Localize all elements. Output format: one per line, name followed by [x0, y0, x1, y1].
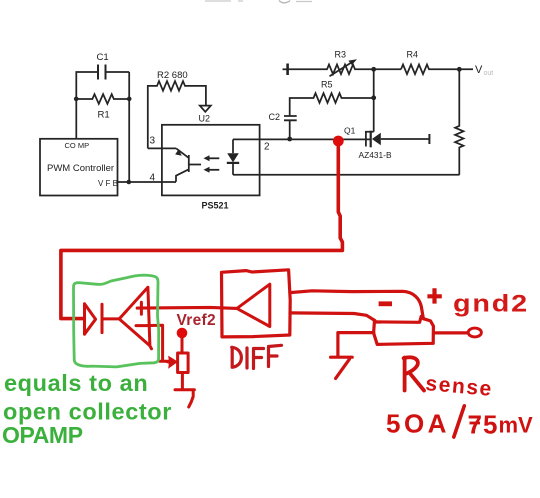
label slash of 50A/75mV: [454, 406, 465, 437]
wire Vref2 to resistor: [181, 338, 184, 353]
opto-coupler PS521 box: [162, 125, 260, 196]
wire LED cathode bottom row: [233, 174, 460, 176]
wire pin2 row: [233, 138, 370, 140]
resistor R3 potentiometer: [289, 65, 401, 75]
ground symbol below resistor: [175, 390, 194, 407]
svg-text:R5: R5: [321, 80, 333, 90]
handwritten R of Rsense: [404, 357, 424, 390]
terminal ring gnd2: [468, 328, 481, 337]
opamp minus input mark and wire to resistor: [136, 325, 169, 361]
node junction right R1: [127, 97, 132, 102]
svg-text:R4: R4: [407, 50, 419, 60]
wire left vertical COMP: [75, 99, 77, 139]
svg-text:4: 4: [150, 173, 156, 184]
wire input terminal stub: [283, 68, 287, 70]
svg-text:PS521: PS521: [202, 201, 229, 211]
svg-text:Vref2: Vref2: [177, 312, 216, 329]
node junction pin4: [127, 180, 132, 185]
svg-text:R1: R1: [98, 109, 110, 120]
svg-text:out: out: [484, 70, 494, 77]
resistor below Vref2: [178, 353, 189, 373]
label DIFF: [232, 345, 282, 368]
svg-text:R2 680: R2 680: [157, 70, 188, 81]
ground U2: [200, 106, 211, 112]
DIFF amplifier box: [222, 270, 291, 337]
wire Rsense minus side to ground: [338, 333, 374, 356]
wire resistor to ground: [181, 373, 184, 390]
resistor R2 680: [148, 81, 206, 148]
wire DIFF output bottom to Rsense minus: [290, 313, 375, 321]
node junction C2: [287, 137, 292, 142]
crossbar of handwritten 7: [470, 422, 481, 425]
node junction R3/R4: [371, 67, 376, 72]
PWM Controller box U1: [40, 139, 118, 196]
wire pin4 row: [118, 181, 177, 183]
svg-text:gnd2: gnd2: [453, 290, 529, 317]
green highlight box around opamp: [74, 275, 159, 367]
red text labels: [177, 290, 534, 440]
DIFF triangle: [237, 284, 270, 326]
svg-text:equals to an: equals to an: [4, 370, 148, 396]
svg-text:AZ431-B: AZ431-B: [359, 150, 392, 160]
svg-text:C2: C2: [269, 112, 281, 122]
svg-text:5OA: 5OA: [386, 409, 450, 439]
label minus probe: [379, 301, 392, 306]
svg-text:U2: U2: [199, 114, 211, 124]
node junction left R1: [74, 97, 79, 102]
node junction Vout: [457, 67, 462, 72]
resistor R1: [76, 94, 129, 104]
cropped word fragment top: [279, 1, 290, 3]
shunt resistor Rsense body: [374, 316, 434, 344]
R3 wiper arrow: [330, 63, 352, 76]
node Q1 red dot: [333, 136, 344, 147]
capacitor C2: [284, 116, 297, 120]
diode D open-collector output: [85, 304, 96, 334]
opamp plus input mark: [140, 302, 143, 314]
node junction R5: [371, 95, 376, 100]
wire vertical ref divider: [373, 69, 375, 132]
capacitor C1: [98, 65, 106, 80]
phototransistor Q inside PS521: [176, 148, 201, 181]
wire right vertical to pin4: [128, 99, 130, 182]
svg-text:75: 75: [468, 410, 499, 440]
wire pin3 row: [148, 147, 176, 149]
svg-text:Q1: Q1: [344, 126, 356, 136]
light arrow 1: [208, 157, 219, 159]
shunt regulator AZ431-B: [366, 132, 374, 147]
svg-text:OPAMP: OPAMP: [2, 422, 83, 448]
svg-text:V F B: V F B: [98, 179, 118, 188]
wire opamp plus to DIFF apex: [137, 307, 237, 308]
ground symbol gnd2 side: [331, 357, 353, 378]
svg-text:V: V: [475, 64, 483, 76]
wire Rsense to terminal: [434, 331, 467, 334]
svg-text:PWM Controller: PWM Controller: [47, 163, 114, 174]
wire C1 top loop: [76, 72, 129, 99]
resistor R5: [290, 93, 374, 115]
svg-text:mV: mV: [499, 413, 534, 438]
light arrow 2: [208, 169, 219, 171]
LED diode inside PS521: [232, 139, 234, 153]
label plus probe: [427, 288, 441, 303]
labels black: [47, 50, 493, 211]
resistor R4: [401, 65, 473, 75]
svg-text:C1: C1: [97, 52, 109, 63]
svg-text:open collector: open collector: [3, 398, 172, 424]
wire diode to opamp apex: [102, 317, 119, 320]
svg-text:CO MP: CO MP: [65, 141, 90, 150]
cropped top text remnants: [205, 0, 312, 3]
wire red from Q1 down-left-down to diode: [61, 143, 343, 319]
svg-text:R3: R3: [335, 50, 347, 60]
svg-text:2: 2: [264, 142, 270, 153]
svg-text:sense: sense: [425, 372, 494, 401]
transistor collector arrow: [175, 149, 182, 155]
node Vref2 dot: [177, 328, 188, 339]
svg-text:3: 3: [150, 136, 156, 147]
op-amp U open-collector: [119, 287, 151, 349]
label equals to an open collector OPAMP: [2, 370, 172, 448]
resistor load right: [455, 69, 463, 175]
wire DIFF output top to Rsense plus: [290, 291, 423, 319]
